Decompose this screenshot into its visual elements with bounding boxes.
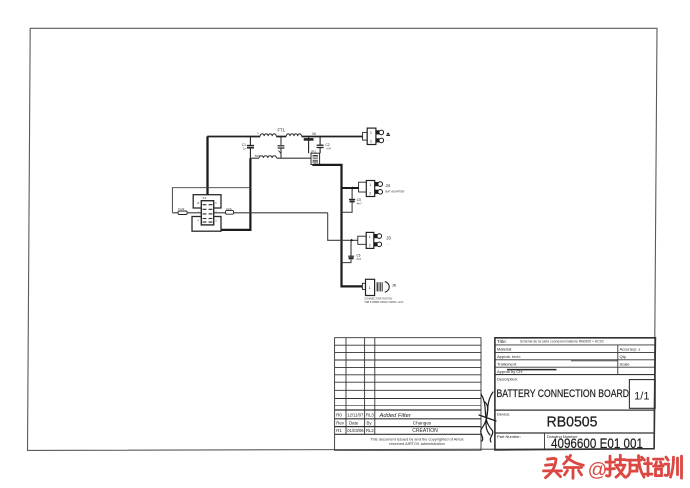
svg-text:J6: J6 [392,282,397,287]
inductor L2 [259,156,276,158]
capacitor C5 [349,188,355,199]
svg-text:10: 10 [197,202,200,205]
node J4 branch [352,187,355,190]
svg-text:Added Filter: Added Filter [379,413,412,419]
value line approb tech row [571,360,618,362]
title block texts [336,339,649,452]
svg-text:J4: J4 [386,183,391,188]
wire left vertical to K1 [206,137,208,196]
relay K1 lower box [192,217,221,232]
svg-text:RL3: RL3 [366,413,374,418]
char xun [665,456,682,478]
svg-text:2: 2 [370,140,372,144]
svg-text:Approb. tech:: Approb. tech: [497,354,521,359]
char pei [644,458,663,476]
svg-text:Title:: Title: [497,339,507,344]
svg-text:4n7: 4n7 [357,202,362,206]
wire branch to J4 [342,187,360,189]
svg-text:-: - [387,242,389,246]
svg-text:Schema de la carte connexion b: Schema de la carte connexion batterie RB… [520,340,604,344]
svg-text:BAT ADAPTER: BAT ADAPTER [385,189,404,193]
svg-text:F2A: F2A [226,207,232,211]
char ji [606,455,626,477]
value line traitement row [507,369,557,371]
svg-text:Rev: Rev [336,420,345,425]
svg-text:4: 4 [198,220,200,223]
char tou [544,458,562,477]
svg-text:CREATION: CREATION [412,428,438,434]
svg-text:1: 1 [369,183,371,187]
svg-text:Approb by CH:: Approb by CH: [497,369,523,374]
svg-text:1: 1 [369,235,371,239]
svg-text:reserved AIRTOX administrati: reserved AIRTOX administration [389,441,445,446]
svg-text:Date: Date [349,420,359,425]
svg-text:4096600 E01 001: 4096600 E01 001 [551,436,643,452]
svg-text:Changes: Changes [413,420,432,425]
wire C1 branch down [221,158,250,230]
1/1 box [629,380,655,409]
svg-text:FT1: FT1 [278,128,286,133]
svg-text:L: L [258,131,260,135]
relay pin numbers [197,202,218,223]
wire JP1 to J6 trunk [314,165,364,287]
part / drawing divider [544,433,546,449]
connector J6 [362,279,389,295]
fuse F2A [226,210,234,214]
connector J3 [358,232,382,248]
svg-text:RB0505: RB0505 [547,414,598,430]
char cheng [626,456,645,478]
svg-text:Traitement:: Traitement: [497,361,517,366]
capacitor C2 [317,137,324,154]
relay outer thin box [172,188,250,213]
svg-text:Material:: Material: [497,347,512,352]
svg-text:Description:: Description: [497,376,518,381]
svg-text:1: 1 [370,131,372,135]
middle narrow column [494,338,496,450]
svg-text:01/03/06: 01/03/06 [347,428,364,433]
svg-text:JP1: JP1 [311,150,317,154]
svg-text:By: By [367,420,373,425]
node J3 branch [351,239,354,242]
svg-text:Accuracy: ±: Accuracy: ± [620,347,642,352]
right sub column for accuracy/qty/scale [617,345,619,375]
wire top rail [207,136,363,138]
svg-text:J3: J3 [386,236,391,241]
svg-text:Scale: Scale [620,361,631,366]
svg-text:RL2: RL2 [366,428,374,433]
wire lower rail [250,157,311,159]
right block rows [495,344,656,346]
right title block outer [495,338,656,450]
svg-text:@: @ [588,459,608,481]
svg-text:3: 3 [215,220,217,223]
svg-text:9: 9 [215,202,217,205]
svg-text:n/A: n/A [327,147,332,151]
inductor L1a [260,134,276,136]
svg-text:CONNECTOR FASTON: CONNECTOR FASTON [364,296,392,300]
inductor L1b [286,134,301,136]
relay pins [203,205,213,222]
svg-text:K1: K1 [203,196,207,200]
svg-text:R0: R0 [336,413,342,418]
char tiao [564,455,584,478]
hand squiggle mark between tables [479,392,496,442]
svg-text:R1: R1 [336,428,342,433]
svg-text:1/1: 1/1 [634,390,649,402]
svg-text:12/11/07: 12/11/07 [347,413,364,418]
revision table row lines [335,344,481,346]
connector J4 [359,181,383,197]
svg-text:Qty.: Qty. [620,354,627,359]
capacitor Cmid [278,137,285,159]
svg-text:1: 1 [369,286,371,290]
svg-text:1n: 1n [243,146,247,150]
svg-text:500: 500 [255,154,260,158]
svg-text:4n7: 4n7 [356,257,361,261]
svg-text:TAB 6.35MM ORGO CRMO +12V: TAB 6.35MM ORGO CRMO +12V [364,300,403,304]
revision table outer [335,338,481,451]
svg-text:-: - [387,139,389,143]
connector J5 [363,128,384,144]
feedthrough capacitor C4 bar [304,137,314,154]
relay feed wire [172,213,358,241]
jumper JP1 [311,153,320,164]
svg-text:2: 2 [369,243,371,247]
capacitor C6 [348,240,354,256]
relay K1 central block [201,201,213,225]
svg-text:06: 06 [312,132,316,136]
drawing sheet frame [28,28,658,450]
revision table column lines [345,338,347,435]
svg-text:2: 2 [369,191,371,195]
relay K1 upper box [193,195,221,208]
svg-text:BATTERY CONNECTION BOARD: BATTERY CONNECTION BOARD [497,388,630,400]
fuse F1/2 [178,211,187,215]
capacitor C1 [247,137,254,159]
svg-text:F1/2: F1/2 [178,207,184,211]
svg-text:Part Number:: Part Number: [497,434,521,439]
svg-text:Device:: Device: [497,412,510,417]
